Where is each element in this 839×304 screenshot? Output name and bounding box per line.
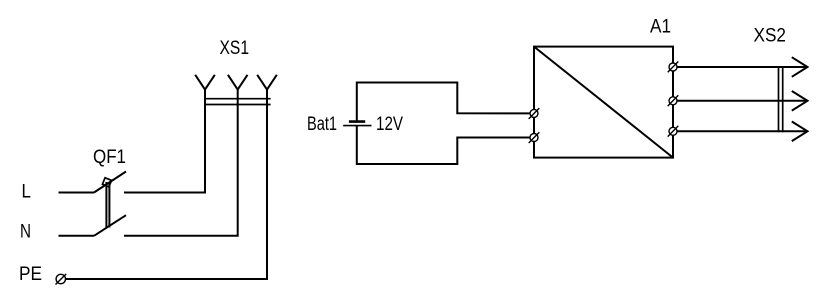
svg-text:L: L bbox=[22, 182, 31, 203]
svg-text:XS1: XS1 bbox=[220, 38, 250, 59]
svg-text:PE: PE bbox=[19, 264, 42, 285]
svg-text:QF1: QF1 bbox=[93, 147, 126, 168]
svg-text:XS2: XS2 bbox=[754, 26, 787, 47]
svg-text:Bat1: Bat1 bbox=[307, 114, 337, 135]
svg-text:12V: 12V bbox=[376, 114, 403, 135]
svg-text:A1: A1 bbox=[650, 17, 671, 38]
svg-text:N: N bbox=[20, 222, 31, 243]
